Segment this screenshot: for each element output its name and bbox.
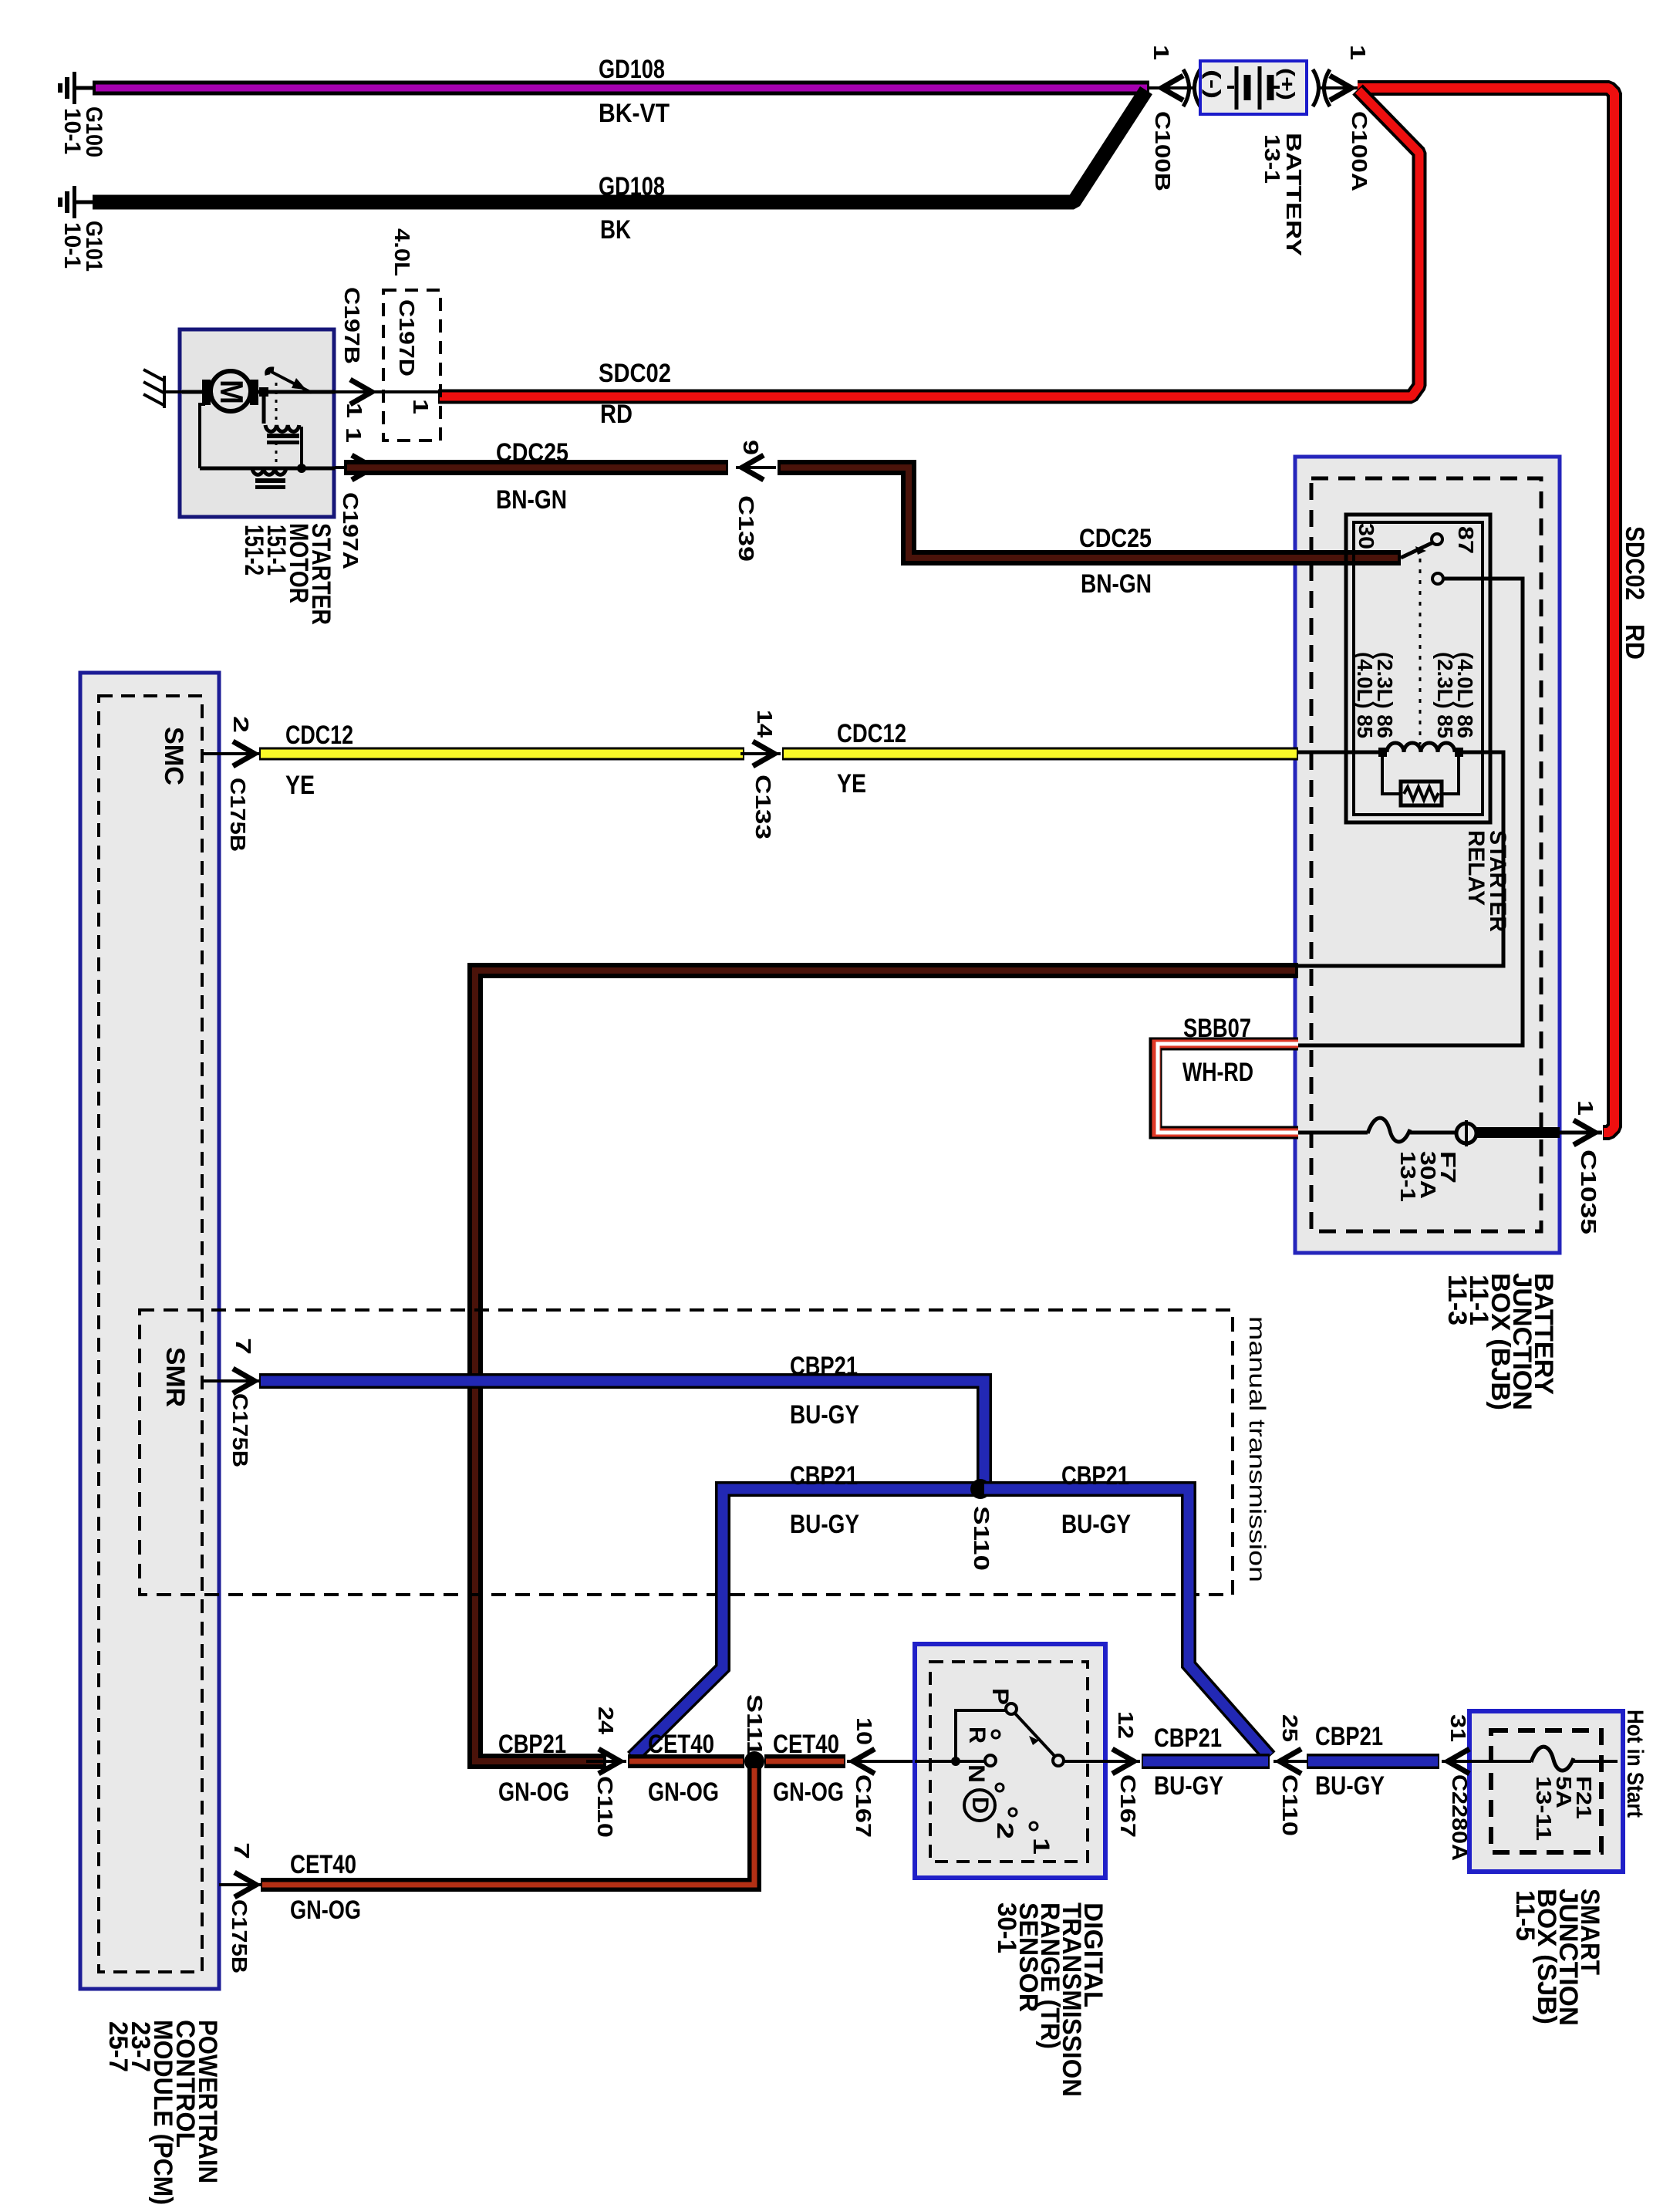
svg-text:SMC: SMC	[159, 727, 188, 785]
svg-text:C1035: C1035	[1577, 1150, 1601, 1234]
svg-text:SDC02: SDC02	[599, 359, 671, 388]
svg-text:N: N	[963, 1764, 989, 1783]
svg-text:(4.0L) 85: (4.0L) 85	[1353, 652, 1377, 738]
svg-text:CBP21: CBP21	[1154, 1724, 1222, 1753]
svg-text:2: 2	[229, 716, 253, 733]
fuse F21 5A	[1491, 1747, 1618, 1841]
relay contact 30/87	[1401, 534, 1443, 744]
svg-text:13-11: 13-11	[1532, 1776, 1556, 1841]
svg-text:1: 1	[1574, 1100, 1597, 1116]
svg-text:7: 7	[230, 1842, 254, 1859]
connector C167 arrow pin 10	[847, 1717, 915, 1838]
svg-text:11-5: 11-5	[1510, 1890, 1540, 1941]
svg-text:C110: C110	[1278, 1774, 1302, 1836]
battery junction box (BJB)	[1295, 457, 1560, 1410]
svg-text:1: 1	[1149, 45, 1173, 60]
svg-text:CDC12: CDC12	[285, 721, 353, 750]
powertrain control module (PCM) box	[80, 673, 222, 2205]
connector C197A arrow pin 1	[335, 427, 380, 569]
connector C100A arrow	[1313, 45, 1371, 191]
svg-text:9: 9	[739, 440, 763, 455]
svg-text:13-1: 13-1	[1260, 134, 1284, 184]
svg-text:CBP21: CBP21	[790, 1461, 858, 1491]
svg-text:1: 1	[342, 403, 366, 418]
svg-text:30: 30	[1354, 523, 1378, 549]
svg-text:D: D	[967, 1797, 993, 1814]
svg-text:P: P	[987, 1688, 1013, 1705]
svg-text:R: R	[964, 1727, 990, 1744]
svg-text:(-): (-)	[1202, 69, 1225, 99]
svg-text:C197D: C197D	[395, 299, 419, 376]
svg-text:C175B: C175B	[226, 778, 250, 852]
svg-text:CDC25: CDC25	[496, 438, 568, 468]
svg-text:10-1: 10-1	[59, 108, 85, 154]
svg-text:2: 2	[992, 1822, 1017, 1839]
connector C139 arrow pin 9	[734, 440, 776, 562]
wire CDC25 BN-GN segment 2 to BJB relay pin 30	[778, 468, 1401, 599]
connector C1035 arrow pin 1	[1560, 1100, 1602, 1234]
svg-text:GN-OG: GN-OG	[498, 1778, 569, 1807]
wire SDC02 RD diagonal (battery positive to starter solenoid)	[438, 89, 1419, 429]
svg-text:C167: C167	[1116, 1774, 1140, 1838]
relay resistor	[1382, 757, 1459, 805]
wire GD108 BK (battery negative cable)	[93, 90, 1146, 245]
svg-text:14: 14	[753, 710, 777, 738]
starter motor box	[180, 329, 334, 517]
ground G101	[58, 186, 106, 272]
svg-text:C2280A: C2280A	[1448, 1774, 1472, 1861]
wire CBP21 BU-GY between C110 and C2280A pin 31	[1307, 1722, 1439, 1801]
svg-text:RD: RD	[600, 400, 633, 429]
wire CET40 GN-OG from S111 down to PCM pin 7	[261, 1768, 754, 1925]
svg-text:BN-GN: BN-GN	[1081, 569, 1152, 599]
splice S110	[970, 1479, 993, 1571]
svg-text:YE: YE	[285, 771, 315, 800]
svg-text:BK: BK	[600, 215, 631, 245]
wire SBB07 WH-RD loop	[1155, 1014, 1298, 1133]
svg-text:12: 12	[1114, 1711, 1138, 1739]
svg-text:25: 25	[1278, 1714, 1302, 1742]
svg-text:C110: C110	[593, 1776, 617, 1838]
svg-text:1: 1	[342, 427, 366, 443]
svg-text:C133: C133	[751, 775, 775, 839]
svg-text:Hot in Start: Hot in Start	[1622, 1710, 1648, 1818]
svg-text:7: 7	[231, 1338, 255, 1355]
connector C110 arrow pin 24	[586, 1707, 626, 1838]
wire CDC25 from relay coil down page middle	[475, 971, 1298, 1807]
connector C133 arrow pin 14	[740, 710, 781, 839]
svg-text:CBP21: CBP21	[790, 1352, 858, 1381]
svg-text:S111: S111	[743, 1694, 767, 1756]
svg-text:13-1: 13-1	[1396, 1151, 1420, 1202]
svg-text:C197A: C197A	[339, 492, 363, 569]
svg-text:1: 1	[1028, 1838, 1054, 1855]
svg-text:C100A: C100A	[1348, 111, 1371, 191]
svg-text:C175B: C175B	[228, 1899, 251, 1973]
svg-text:BN-GN: BN-GN	[496, 485, 567, 515]
wire CET40 GN-OG from C110 to S111	[628, 1730, 744, 1807]
svg-text:151-2: 151-2	[239, 525, 268, 576]
svg-text:CBP21: CBP21	[498, 1730, 566, 1759]
svg-text:GN-OG: GN-OG	[648, 1778, 719, 1807]
svg-text:GN-OG: GN-OG	[290, 1896, 361, 1925]
svg-text:(2.3L) 85: (2.3L) 85	[1433, 652, 1457, 738]
svg-text:87: 87	[1454, 526, 1478, 554]
wire CDC12 YE segment 2 to relay coil	[782, 719, 1298, 798]
svg-text:25-7: 25-7	[103, 2021, 133, 2072]
svg-text:10-1: 10-1	[59, 222, 85, 268]
svg-text:CET40: CET40	[648, 1730, 714, 1759]
svg-text:WH-RD: WH-RD	[1182, 1058, 1253, 1087]
wire CET40 GN-OG from S111 to C167 pin 10	[764, 1730, 845, 1807]
svg-text:BU-GY: BU-GY	[1154, 1771, 1223, 1801]
digital transmission range (TR) sensor box	[915, 1644, 1108, 2097]
connector C110 arrow pin 25	[1273, 1714, 1314, 1836]
svg-text:SDC02: SDC02	[1620, 526, 1649, 600]
svg-text:CBP21: CBP21	[1315, 1722, 1383, 1751]
svg-text:SBB07: SBB07	[1183, 1014, 1251, 1043]
svg-text:YE: YE	[837, 769, 866, 798]
svg-text:10: 10	[852, 1717, 876, 1745]
svg-text:CET40: CET40	[773, 1730, 839, 1759]
svg-text:C167: C167	[852, 1774, 875, 1838]
wire CDC25 BN-GN segment 1	[344, 438, 728, 515]
smart junction box (SJB)	[1469, 1711, 1623, 2026]
svg-text:BU-GY: BU-GY	[1061, 1510, 1131, 1539]
svg-text:24: 24	[594, 1707, 618, 1734]
connector C197B arrow pin 1	[335, 287, 438, 418]
connector C167 arrow pin 12	[1100, 1711, 1140, 1838]
relay pin 87 wire to fuse loop	[1298, 579, 1523, 1045]
wire CBP21 BU-GY right branch from S110 to C110 pin 25	[984, 1461, 1270, 1757]
svg-text:C139: C139	[734, 495, 758, 562]
svg-text:C197B: C197B	[340, 287, 364, 364]
svg-text:4.0L: 4.0L	[390, 228, 414, 276]
svg-text:BU-GY: BU-GY	[790, 1510, 859, 1539]
svg-text:CET40: CET40	[290, 1850, 356, 1879]
svg-text:GN-OG: GN-OG	[773, 1778, 844, 1807]
starter relay box	[1346, 515, 1510, 932]
svg-text:manual transmission: manual transmission	[1244, 1316, 1270, 1582]
svg-text:31: 31	[1446, 1714, 1470, 1742]
wire CBP21 BU-GY left branch from S110 to C110	[633, 1461, 984, 1757]
connector C197D dashed box pin 1 (4.0L)	[383, 228, 440, 441]
svg-text:11-3: 11-3	[1442, 1274, 1472, 1325]
svg-text:RELAY: RELAY	[1463, 830, 1489, 906]
connector C175B pin 2 arrow	[202, 716, 261, 852]
svg-text:BU-GY: BU-GY	[790, 1400, 859, 1430]
connector C175B pin 7 arrow (SMR)	[202, 1338, 261, 1467]
splice S111	[743, 1694, 767, 1771]
svg-text:BATTERY: BATTERY	[1282, 133, 1306, 256]
chassis ground at starter motor	[143, 370, 182, 408]
connector C100B arrow	[1149, 45, 1200, 191]
svg-text:CBP21: CBP21	[1061, 1461, 1129, 1491]
relay coil 85/86	[1298, 652, 1503, 966]
wire CBP21 BU-GY between C167 and C110 pin 25	[1142, 1724, 1270, 1801]
svg-text:CDC12: CDC12	[837, 719, 906, 748]
wire GD108 BK-VT (battery negative to G100)	[93, 55, 1149, 128]
svg-text:BU-GY: BU-GY	[1315, 1771, 1385, 1801]
starter motor M and solenoid	[182, 370, 336, 625]
TR sensor switch internals	[915, 1688, 1132, 1855]
wire CBP21 BU-GY from SMR to S110	[259, 1352, 984, 1489]
svg-text:RD: RD	[1620, 624, 1649, 660]
wire SDC02 RD right loop (battery positive to BJB C1035)	[1358, 88, 1649, 1133]
ground G100	[58, 72, 106, 157]
svg-text:GD108: GD108	[599, 172, 665, 201]
svg-text:30-1: 30-1	[992, 1902, 1021, 1953]
svg-text:SMR: SMR	[160, 1347, 190, 1407]
manual transmission dashed box	[140, 1310, 1270, 1595]
svg-text:GD108: GD108	[599, 55, 665, 84]
battery	[1200, 61, 1307, 256]
svg-text:(+): (+)	[1276, 68, 1299, 100]
svg-text:M: M	[214, 380, 250, 404]
fuse F7 30A	[1298, 1118, 1560, 1202]
svg-text:S110: S110	[970, 1506, 993, 1571]
svg-text:C175B: C175B	[228, 1393, 252, 1467]
wire CDC12 YE segment 1	[259, 721, 744, 800]
svg-text:BK-VT: BK-VT	[599, 99, 670, 128]
svg-text:CDC25: CDC25	[1079, 524, 1152, 553]
svg-text:C100B: C100B	[1151, 111, 1175, 191]
connector C175B pin 7 arrow (bottom)	[219, 1842, 262, 1973]
svg-text:1: 1	[1346, 45, 1370, 60]
connector C2280A arrow pin 31	[1442, 1714, 1491, 1861]
svg-text:1: 1	[409, 399, 433, 414]
